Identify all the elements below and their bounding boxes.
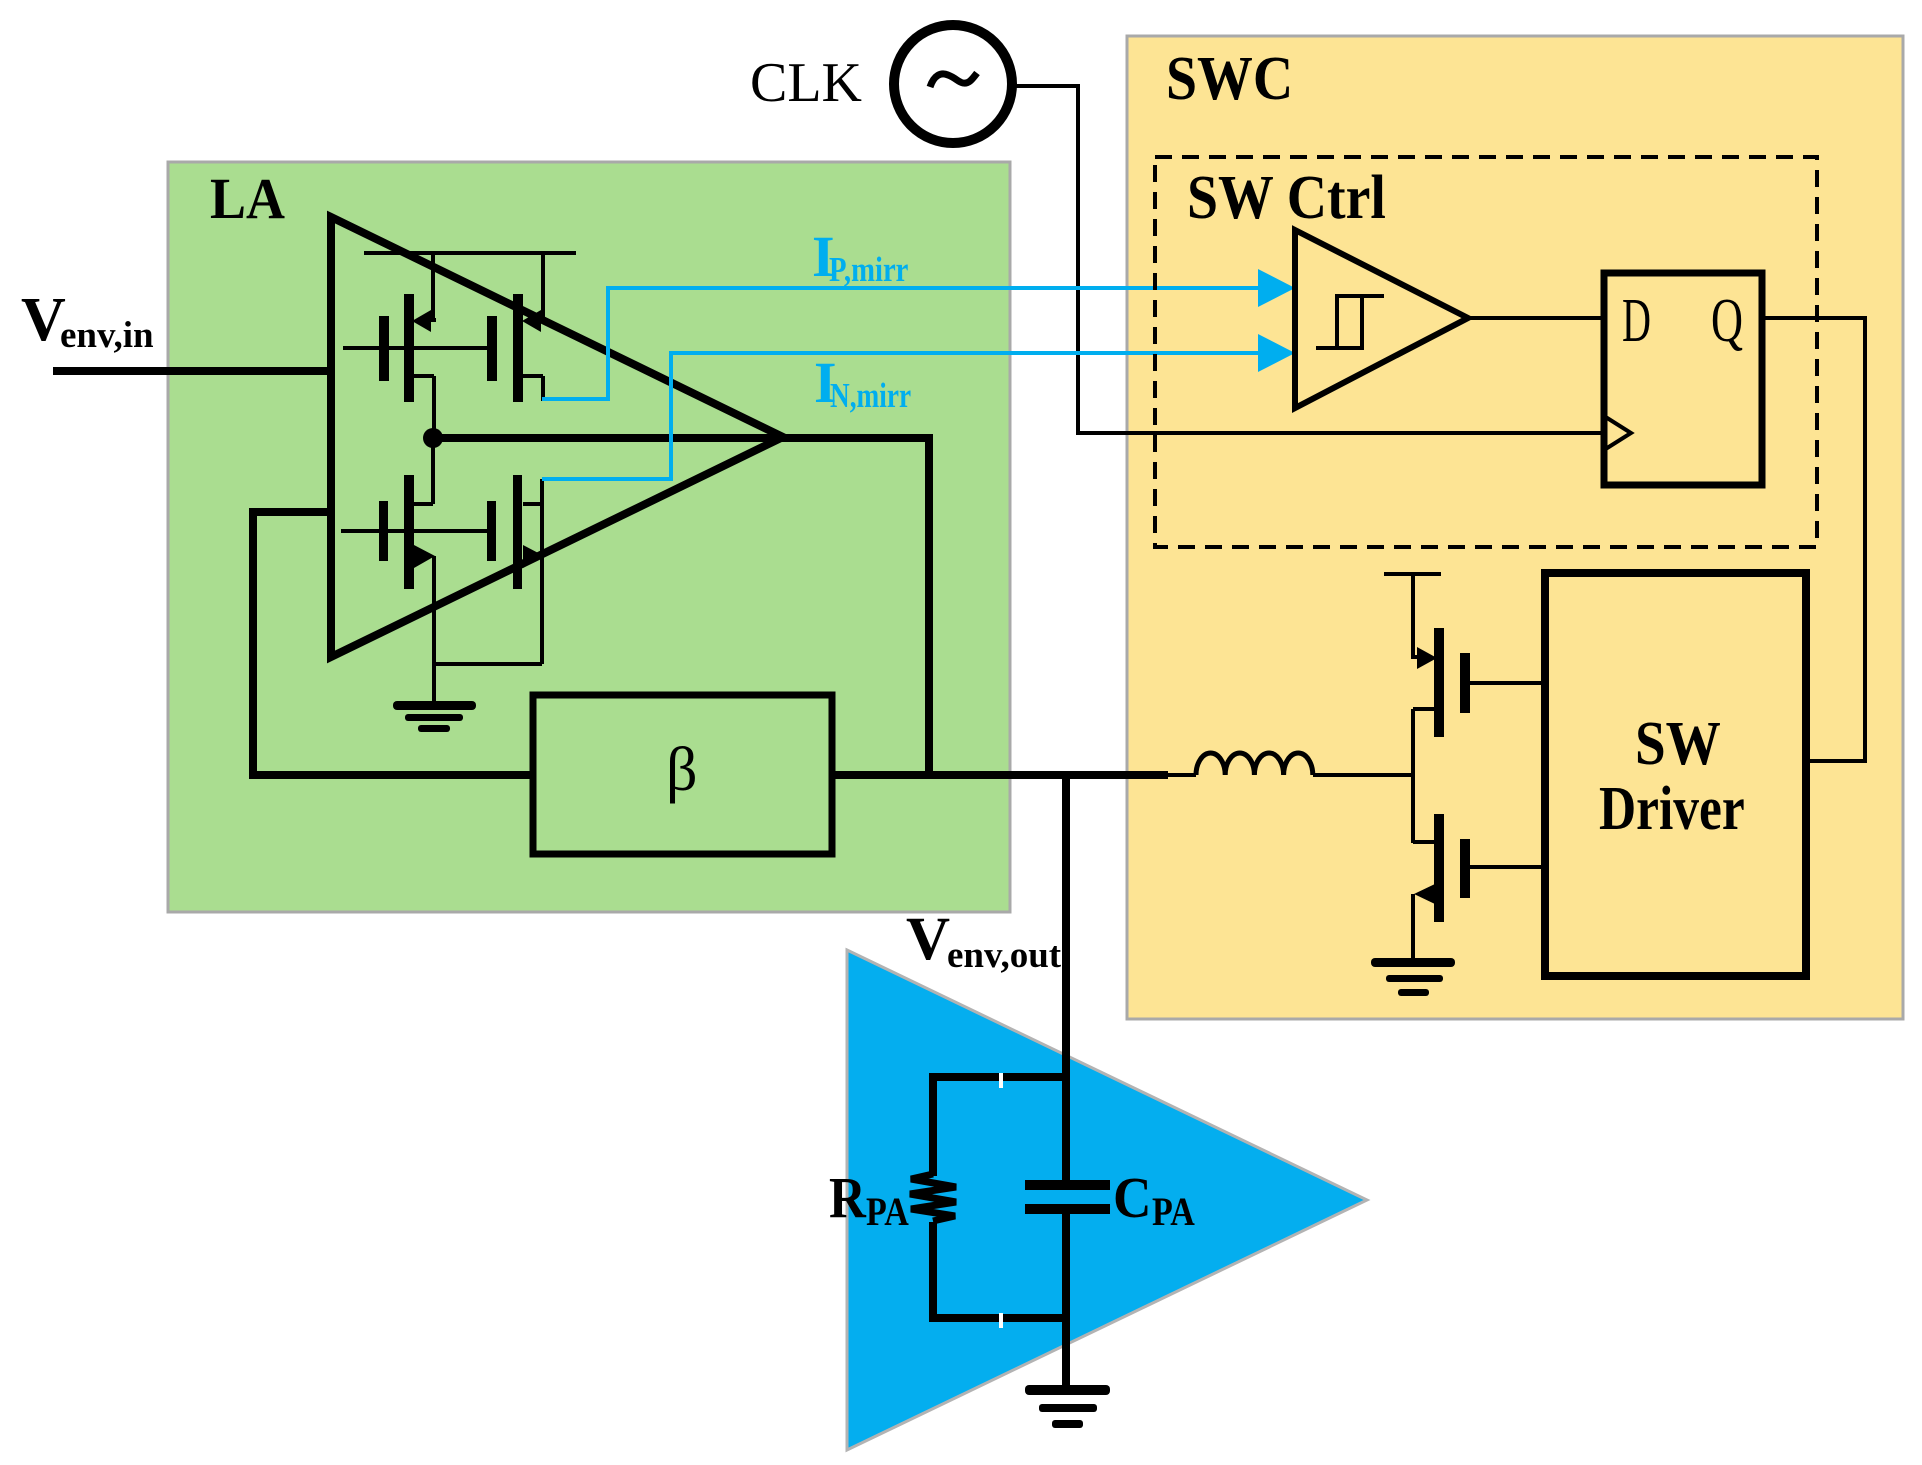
arrow Ip,mirr head	[1258, 269, 1295, 307]
transistor M4 NMOS right	[487, 475, 544, 664]
block SW Driver	[1545, 573, 1806, 976]
svg-text:CLK: CLK	[750, 52, 862, 114]
wire switching node vertical	[1411, 574, 1418, 961]
label LA	[210, 167, 285, 231]
wire CLK to flip-flop clock input	[1015, 86, 1604, 433]
transistor M5 PMOS switch	[1413, 628, 1545, 737]
comparator U2 with hysteresis	[1295, 230, 1468, 408]
wire top supply rail inside op-amp	[364, 251, 576, 255]
svg-text:SW Ctrl: SW Ctrl	[1187, 162, 1386, 231]
svg-text:SW: SW	[1635, 709, 1721, 778]
block SWC background	[1127, 36, 1903, 1019]
svg-text:PA: PA	[866, 1191, 909, 1235]
wire op-amp mid line to output	[433, 434, 929, 442]
label SWC	[1166, 43, 1293, 112]
svg-text:SWC: SWC	[1166, 43, 1293, 112]
label Ip,mirr	[812, 224, 908, 289]
wire output node Venv,out horizontal	[832, 771, 1168, 779]
wire Q output to SW Driver	[1762, 318, 1865, 761]
capacitor CPA	[1025, 1185, 1110, 1209]
block LA background	[168, 162, 1010, 912]
transistor M3 NMOS left	[379, 438, 435, 664]
transistor M2 PMOS right	[487, 253, 546, 402]
wire RC top	[929, 1073, 1066, 1176]
arrow In,mirr head	[1258, 334, 1295, 372]
wire comparator output to D input	[1468, 316, 1604, 320]
PA amplifier triangle	[847, 950, 1367, 1450]
label Venv,in	[21, 286, 154, 356]
ground LA	[393, 701, 476, 732]
label CLK	[750, 52, 862, 114]
label In,mirr	[814, 350, 911, 415]
flip-flop U3 D box	[1604, 273, 1762, 485]
svg-text:N,mirr: N,mirr	[830, 376, 911, 415]
label Q	[1711, 287, 1743, 355]
label D	[1622, 287, 1651, 355]
wire NMOS gates	[341, 529, 487, 533]
block SW Ctrl dashed box	[1155, 157, 1817, 547]
node junction dot	[423, 428, 443, 448]
svg-text:P,mirr: P,mirr	[829, 249, 908, 288]
transistor M6 NMOS switch	[1413, 814, 1545, 922]
transistor M1 PMOS left	[379, 253, 436, 440]
ground PA	[1025, 1385, 1110, 1428]
svg-text:LA: LA	[210, 167, 285, 231]
label RPA	[829, 1165, 909, 1235]
label SW Ctrl	[1187, 162, 1386, 231]
svg-text:env,out: env,out	[947, 935, 1062, 976]
svg-text:env,in: env,in	[60, 315, 154, 356]
svg-text:PA: PA	[1152, 1191, 1195, 1235]
clock source CLK circle	[894, 25, 1012, 143]
flip-flop clock edge triangle	[1604, 416, 1631, 450]
wire feedback from beta	[253, 508, 537, 779]
inductor L1	[1168, 753, 1413, 775]
label CPA	[1113, 1166, 1195, 1235]
wire resistor to bottom	[929, 1222, 1066, 1322]
wire In,mirr cyan	[542, 353, 1262, 479]
ground SWC	[1371, 958, 1455, 996]
svg-text:D: D	[1622, 287, 1651, 355]
wire Ip,mirr cyan	[542, 288, 1262, 399]
wire PMOS gates	[343, 346, 487, 350]
wire Venv,out vertical	[1062, 775, 1070, 1392]
wire joint tick top	[999, 1073, 1003, 1088]
wire op-amp output down	[925, 434, 933, 779]
wire NMOS sources join	[433, 662, 542, 703]
wire Venv,in input	[53, 367, 331, 375]
svg-text:V: V	[906, 906, 950, 973]
svg-text:Driver: Driver	[1599, 775, 1745, 844]
resistor RPA	[910, 1174, 956, 1221]
power rail VDD	[1384, 572, 1441, 576]
svg-text:C: C	[1113, 1166, 1152, 1231]
svg-text:β: β	[666, 736, 698, 804]
wire joint tick bottom	[999, 1313, 1003, 1328]
svg-text:R: R	[829, 1165, 866, 1230]
block beta feedback	[533, 695, 832, 854]
label Venv,out	[906, 906, 1062, 976]
svg-text:Q: Q	[1711, 287, 1743, 355]
op-amp U1 triangle (linear amplifier)	[331, 217, 783, 657]
